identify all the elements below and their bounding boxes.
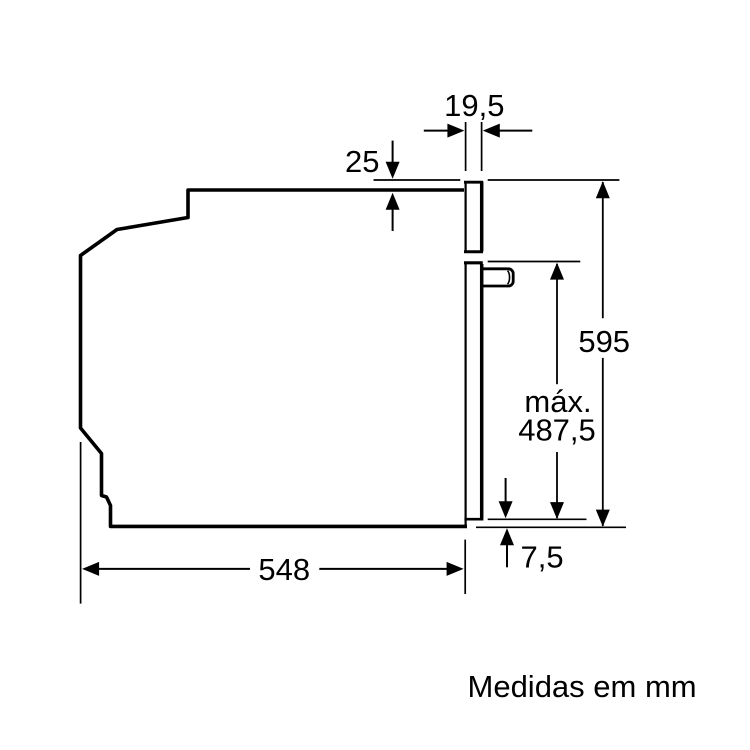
- svg-text:595: 595: [578, 324, 630, 359]
- dim 548 extension line left: [80, 442, 82, 604]
- dim 595 bottom arrow: [596, 510, 610, 527]
- door upper rect top edge: [464, 181, 483, 184]
- oven body outline: [81, 190, 468, 526]
- dim 595 top arrow: [596, 181, 610, 198]
- dim max 487,5 top arrow: [550, 263, 564, 280]
- top reference line right part: [488, 179, 620, 181]
- svg-text:487,5: 487,5: [518, 413, 596, 448]
- svg-text:7,5: 7,5: [521, 539, 564, 574]
- dim 548 right arrow: [447, 562, 464, 576]
- door back face lower: [465, 262, 467, 519]
- door back face upper: [465, 181, 467, 253]
- dim 19,5 extension line right: [481, 122, 483, 171]
- dim 548 line right segment: [319, 568, 448, 570]
- dim 19,5 extension line left: [465, 122, 467, 171]
- door bar below gap: [464, 261, 483, 264]
- svg-text:548: 548: [258, 552, 310, 587]
- svg-text:Medidas em mm: Medidas em mm: [468, 669, 697, 704]
- dim 19,5 right arrow: [500, 130, 533, 132]
- dim 595 line upper: [602, 182, 604, 318]
- dim 25 down arrow: [392, 141, 394, 163]
- dim max 487,5 line lower: [556, 452, 558, 518]
- door front face upper: [480, 182, 484, 252]
- dim 25 up arrow: [392, 209, 394, 231]
- top reference line left part: [374, 179, 461, 181]
- door upper rect bottom edge: [464, 250, 483, 253]
- dim 548 line left segment: [97, 568, 250, 570]
- handle: [482, 269, 514, 286]
- dim 595 line lower: [602, 358, 604, 526]
- door bottom edge: [464, 518, 483, 521]
- dim max 487,5 line upper: [556, 264, 558, 384]
- max reference line: [488, 261, 581, 263]
- dim 548 left arrow: [82, 562, 99, 576]
- dim max 487,5 bottom arrow: [550, 502, 564, 519]
- bottom reference line 2: [476, 526, 626, 528]
- svg-text:19,5: 19,5: [444, 88, 504, 123]
- door front face lower: [480, 264, 484, 518]
- dim 19,5 left arrow: [424, 130, 448, 132]
- bottom reference line 1: [488, 518, 587, 520]
- handle inner arc: [508, 271, 510, 285]
- door bottom connector: [465, 519, 467, 528]
- dim 548 extension line right: [464, 540, 466, 594]
- dim 7,5 down arrow: [505, 478, 507, 503]
- dim 7,5 up arrow: [506, 544, 508, 567]
- svg-text:25: 25: [345, 144, 379, 179]
